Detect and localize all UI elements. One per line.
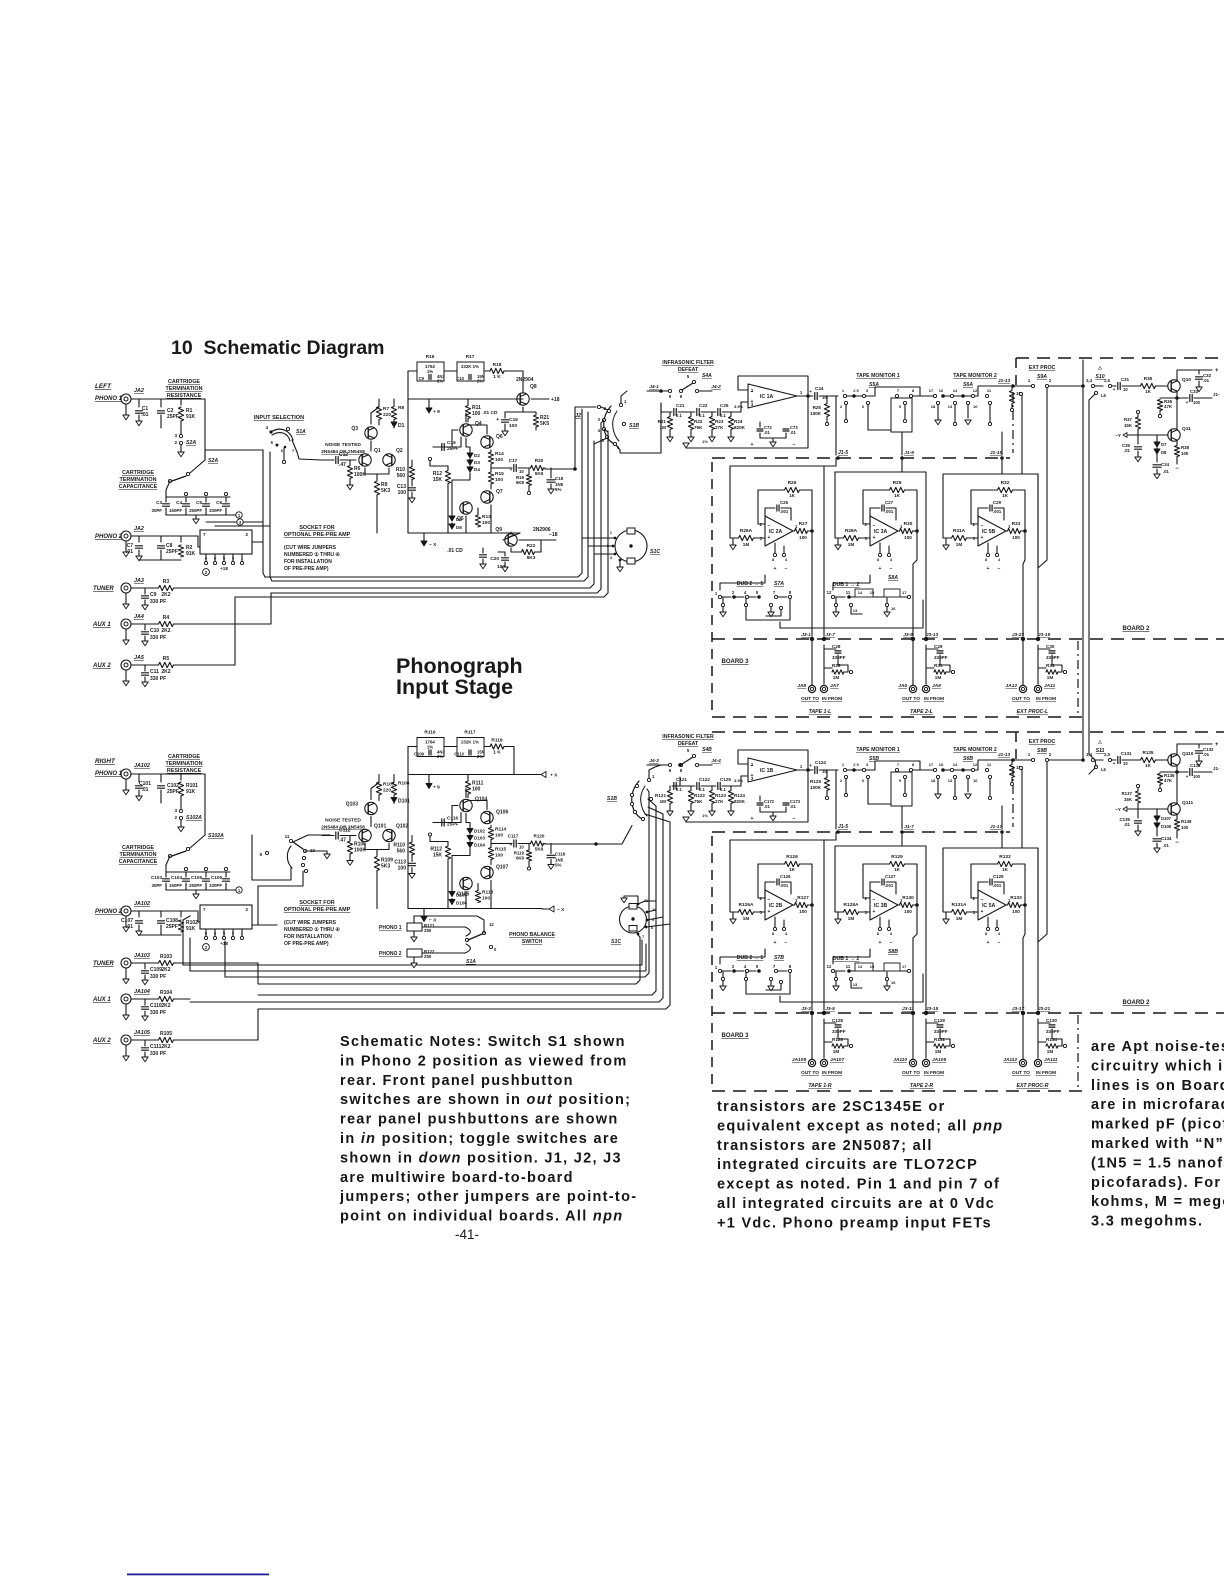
- svg-text:2: 2: [1049, 752, 1052, 757]
- svg-text:R17: R17: [466, 354, 475, 360]
- trimmer R122 250: [407, 949, 422, 957]
- svg-text:AUX 2: AUX 2: [92, 1038, 111, 1044]
- svg-text:R113: R113: [482, 890, 494, 896]
- svg-text:1: 1: [800, 390, 803, 395]
- svg-text:−: −: [998, 940, 1001, 946]
- svg-text:C29: C29: [993, 500, 1002, 505]
- svg-text:BOARD 3: BOARD 3: [721, 1033, 749, 1039]
- svg-text:10: 10: [973, 778, 978, 783]
- wire board2 long vertical B (L6 link): [1089, 400, 1096, 766]
- svg-text:330PF: 330PF: [832, 655, 846, 660]
- capacitor C22 0.1: [697, 409, 699, 416]
- capacitor C2 25PF: [158, 411, 165, 413]
- svg-text:C9: C9: [150, 592, 157, 598]
- diode D106: [451, 899, 453, 905]
- svg-text:D103: D103: [474, 836, 485, 841]
- svg-text:−: −: [981, 897, 984, 903]
- socket for optional pre-pre amp (rectangle): [200, 905, 252, 929]
- svg-text:are multiwire board-to-board: are multiwire board-to-board: [340, 1170, 574, 1186]
- svg-text:R5: R5: [163, 656, 170, 662]
- svg-text:IN FROM: IN FROM: [822, 696, 842, 702]
- jack JA12 OUT TO (EXT PROC-L): [1022, 639, 1024, 685]
- svg-text:△: △: [1097, 365, 1102, 370]
- svg-text:Q9: Q9: [495, 527, 502, 533]
- resistor R36 47K: [1176, 392, 1178, 398]
- svg-text:S1B: S1B: [629, 423, 639, 429]
- jack JA9 IN FROM (TAPE 2-L): [922, 685, 929, 692]
- svg-text:IN FROM: IN FROM: [1036, 1070, 1056, 1076]
- resistor R26A 1M (input): [733, 537, 738, 539]
- resistor R104 2K2: [145, 998, 158, 1000]
- svg-text:6K8: 6K8: [516, 480, 525, 485]
- wire tape1 monitor to J1-9: [901, 432, 903, 455]
- wire IC 3B supply pins: [879, 917, 881, 927]
- svg-text:5K5: 5K5: [540, 421, 549, 427]
- svg-text:9: 9: [899, 404, 902, 409]
- capacitor C29 330PF / resistor R31 1M (input filter): [925, 645, 927, 684]
- resistor R38 100: [1176, 441, 1178, 445]
- svg-text:330PF: 330PF: [209, 508, 222, 513]
- svg-text:4: 4: [785, 931, 788, 936]
- svg-text:D8: D8: [1161, 450, 1167, 455]
- power arrow -Y: [1128, 808, 1138, 810]
- svg-text:S1C: S1C: [611, 939, 621, 945]
- switch S1A phono balance wiper: [422, 926, 465, 928]
- svg-text:3: 3: [174, 433, 177, 438]
- resistor R118 1K: [490, 744, 504, 749]
- capacitor C6 330PF: [225, 497, 227, 502]
- capacitor C31 10: [1118, 383, 1120, 390]
- svg-text:5: 5: [687, 374, 690, 379]
- svg-text:.01: .01: [1203, 752, 1210, 757]
- svg-text:5: 5: [756, 964, 759, 969]
- svg-text:R23: R23: [715, 419, 724, 424]
- svg-text:Q1: Q1: [374, 448, 381, 454]
- svg-text:+: +: [774, 940, 777, 946]
- svg-text:+: +: [1113, 762, 1116, 767]
- resistor R3 2K2: [145, 587, 158, 589]
- capacitor C118 1N5 5%: [550, 844, 552, 854]
- svg-text:4: 4: [744, 590, 747, 595]
- svg-text:C124: C124: [815, 760, 826, 765]
- svg-text:1M: 1M: [833, 675, 840, 680]
- svg-text:100: 100: [472, 411, 481, 417]
- svg-text:J1-17: J1-17: [990, 824, 1003, 830]
- svg-text:Q8: Q8: [530, 384, 537, 390]
- svg-text:J1-5: J1-5: [838, 824, 848, 830]
- jack JA105 (AUX 2): [121, 1035, 131, 1045]
- resistor R108 220: [391, 782, 396, 795]
- svg-text:R38: R38: [1181, 445, 1190, 450]
- svg-text:Q10: Q10: [1182, 377, 1191, 383]
- transistor Q101 input FET: [359, 829, 371, 841]
- svg-text:+1 Vdc. Phono preamp input FET: +1 Vdc. Phono preamp input FETs: [717, 1215, 992, 1231]
- switch S8A drops: [834, 603, 837, 606]
- svg-text:R4: R4: [163, 615, 170, 621]
- wire infrasonic input node (L): [661, 403, 672, 412]
- svg-text:2: 2: [245, 532, 248, 537]
- svg-text:DUB 2 → 1: DUB 2 → 1: [737, 581, 764, 587]
- svg-text:8: 8: [912, 762, 915, 767]
- resistor R103 2K2: [145, 962, 158, 964]
- svg-text:11: 11: [987, 388, 992, 393]
- transistor Q6: [481, 436, 493, 448]
- board 2 top dashed boundary (L): [1016, 357, 1224, 359]
- svg-text:integrated circuits are TLO72C: integrated circuits are TLO72CP: [717, 1157, 978, 1173]
- svg-text:2: 2: [732, 590, 735, 595]
- svg-text:27K: 27K: [715, 425, 724, 430]
- jack JA8 OUT TO (TAPE 1-L): [811, 639, 813, 685]
- wire aux2 riser: [190, 597, 235, 665]
- svg-text:D2: D2: [474, 453, 480, 458]
- svg-text:△: △: [1097, 739, 1102, 744]
- capacitor C130 330PF / resistor R134 1M (input filter): [1037, 1019, 1039, 1058]
- svg-text:6: 6: [862, 404, 865, 409]
- svg-text:R132: R132: [999, 854, 1011, 860]
- capacitor C102 25PF: [158, 786, 165, 788]
- svg-text:+: +: [809, 764, 812, 769]
- svg-text:16: 16: [939, 388, 944, 393]
- svg-text:Q4: Q4: [475, 421, 482, 427]
- wire C24 node down to J1-5 (R): [835, 770, 837, 829]
- resistor R9 5K3 (source): [376, 474, 378, 480]
- svg-text:25PF: 25PF: [166, 924, 178, 930]
- wire J2 riser: [575, 407, 596, 470]
- diode D2: [469, 452, 471, 457]
- svg-text:3.3 megohms.: 3.3 megohms.: [1091, 1214, 1203, 1230]
- wire phono1 R1 node to S1A: [205, 449, 263, 451]
- svg-text:100: 100: [1193, 774, 1201, 779]
- svg-text:Q101: Q101: [374, 824, 386, 830]
- svg-text:2K2: 2K2: [161, 592, 170, 598]
- svg-text:LEFT: LEFT: [95, 383, 112, 390]
- svg-text:C10: C10: [456, 376, 464, 381]
- svg-text:2%: 2%: [437, 754, 443, 759]
- svg-text:PHONO 2: PHONO 2: [95, 909, 123, 915]
- resistor R109 5K3 (source): [376, 850, 378, 856]
- svg-text:8: 8: [772, 931, 775, 936]
- svg-text:point on individual boards. Al: point on individual boards. All npn: [340, 1209, 623, 1225]
- svg-text:IN FROM: IN FROM: [924, 696, 944, 702]
- resistor R24 820K: [730, 412, 732, 416]
- wire crescent pin5 tap: [594, 438, 607, 444]
- svg-text:17: 17: [929, 762, 934, 767]
- svg-text:JA108: JA108: [792, 1057, 806, 1063]
- svg-text:C31: C31: [1121, 377, 1130, 382]
- svg-text:1: 1: [1028, 752, 1031, 757]
- svg-text:13: 13: [853, 982, 858, 987]
- svg-text:−18: −18: [549, 532, 558, 538]
- resistor R114 100: [488, 828, 493, 840]
- svg-text:in Phono 2 position as viewed: in Phono 2 position as viewed from: [340, 1053, 628, 1069]
- wire J1-5 to IC2 input (R): [730, 840, 836, 912]
- svg-text:Q104: Q104: [475, 797, 487, 803]
- svg-text:4: 4: [744, 964, 747, 969]
- svg-text:J1-15: J1-15: [990, 450, 1003, 456]
- svg-text:1K: 1K: [789, 867, 796, 872]
- svg-text:3: 3: [866, 762, 869, 767]
- svg-text:C126: C126: [780, 874, 791, 879]
- svg-text:SOCKET FOR: SOCKET FOR: [299, 525, 334, 531]
- resistor R4 2K2: [145, 623, 158, 625]
- svg-text:Schematic Notes: Switch S1 sho: Schematic Notes: Switch S1 shown: [340, 1034, 626, 1050]
- svg-text:S7A: S7A: [774, 581, 784, 587]
- wire dub bus (R): [780, 1001, 923, 1003]
- resistor R29 1K (feedback): [863, 489, 889, 491]
- transistor Q3 cascode: [365, 427, 377, 439]
- svg-text:+ X: + X: [550, 773, 558, 779]
- resistor R30 100 (output): [898, 530, 899, 532]
- svg-text:3: 3: [866, 388, 869, 393]
- capacitor C8 25PF: [158, 546, 165, 548]
- capacitor C116 25PF: [433, 822, 440, 824]
- svg-text:TUNER: TUNER: [93, 961, 114, 967]
- svg-text:.001: .001: [780, 509, 789, 514]
- svg-text:J1-: J1-: [1213, 392, 1220, 397]
- svg-text:Q3: Q3: [351, 426, 358, 432]
- svg-text:10: 10: [1123, 761, 1128, 766]
- wire right balance feed B: [190, 944, 646, 971]
- svg-text:DEFEAT: DEFEAT: [678, 367, 699, 373]
- svg-text:−: −: [768, 897, 771, 903]
- switch S2A contacts 3,2: [180, 796, 182, 809]
- svg-text:R22: R22: [527, 543, 536, 549]
- svg-text:17: 17: [902, 964, 907, 969]
- svg-text:+: +: [768, 909, 771, 915]
- capacitor C110 330PF: [131, 999, 145, 1005]
- svg-text:C12: C12: [339, 452, 348, 458]
- capacitor C28 330PF / resistor R28 1M (input filter): [823, 645, 825, 684]
- svg-text:232K 1%: 232K 1%: [461, 364, 479, 369]
- svg-text:TERMINATION: TERMINATION: [165, 386, 202, 392]
- svg-text:91K: 91K: [186, 551, 196, 557]
- svg-text:1K: 1K: [1002, 493, 1009, 498]
- svg-text:1%: 1%: [427, 369, 433, 374]
- svg-text:C134: C134: [1161, 836, 1172, 841]
- resistor R26 1K (feedback): [758, 489, 784, 491]
- resistor R127 100 (output): [793, 904, 794, 906]
- svg-text:D104: D104: [474, 843, 485, 848]
- svg-text:BOARD 2: BOARD 2: [1122, 626, 1150, 632]
- jack JA111 IN FROM (EXT PROC-R): [1034, 1059, 1041, 1066]
- svg-text:C133: C133: [1190, 763, 1201, 768]
- jumper circled 2: [203, 944, 210, 951]
- svg-text:S6A: S6A: [963, 382, 973, 388]
- jack JA103 (TUNER): [121, 958, 131, 968]
- wire IC 3A supply pins: [879, 543, 881, 553]
- wire Q110 collector to +: [1177, 744, 1212, 755]
- svg-text:8: 8: [789, 964, 792, 969]
- capacitor C105 250PF: [205, 872, 207, 877]
- capacitor C122 0.1: [697, 783, 699, 790]
- svg-text:3: 3: [174, 808, 177, 813]
- svg-text:J4-3: J4-3: [649, 758, 659, 764]
- svg-text:JA12: JA12: [1006, 683, 1018, 689]
- svg-text:S9B: S9B: [1037, 748, 1047, 754]
- resistor R15 100: [488, 472, 493, 484]
- svg-text:11: 11: [987, 762, 992, 767]
- board 2 left vertical dashed (R): [1015, 732, 1017, 760]
- capacitor C128 330PF / resistor R128 1M (input filter): [823, 1019, 825, 1058]
- svg-text:OUT TO: OUT TO: [801, 1070, 819, 1076]
- svg-text:91K: 91K: [186, 926, 196, 932]
- svg-text:1%: 1%: [702, 439, 708, 444]
- wire crescent pin4 tap: [604, 429, 608, 432]
- jack JA102 (phono 1 input): [121, 769, 131, 779]
- capacitor C32 .01: [1198, 370, 1200, 374]
- svg-text:J1-9: J1-9: [904, 450, 914, 456]
- wire phono2 jack to socket: [131, 911, 139, 917]
- capacitor C27 .001 (feedback): [870, 508, 880, 524]
- svg-text:47K: 47K: [1164, 778, 1173, 783]
- resistor R110 560: [411, 836, 413, 842]
- svg-text:820K: 820K: [734, 425, 746, 430]
- svg-text:6: 6: [281, 448, 284, 453]
- resistor R37 15K: [1136, 410, 1139, 413]
- svg-text:PHONO 1: PHONO 1: [379, 925, 402, 931]
- svg-text:18: 18: [931, 778, 936, 783]
- svg-text:5K3: 5K3: [527, 555, 536, 561]
- svg-text:INPUT SELECTION: INPUT SELECTION: [254, 415, 304, 421]
- svg-text:J1-13: J1-13: [998, 752, 1011, 758]
- svg-text:FOR INSTALLATION: FOR INSTALLATION: [284, 559, 332, 565]
- svg-text:Q103: Q103: [346, 802, 358, 808]
- svg-text:C109: C109: [414, 752, 425, 757]
- svg-text:TAPE MONITOR 1: TAPE MONITOR 1: [856, 747, 900, 753]
- switch S9A contacts: [1013, 385, 1031, 387]
- op-amp IC 2B: [765, 890, 793, 920]
- svg-text:R118: R118: [491, 738, 503, 744]
- svg-text:C110: C110: [454, 752, 464, 757]
- svg-text:100: 100: [398, 490, 407, 496]
- svg-text:− X: − X: [429, 542, 437, 548]
- svg-text:15: 15: [870, 590, 875, 595]
- svg-text:R117: R117: [464, 730, 476, 736]
- transistor Q2 input FET: [383, 454, 395, 466]
- svg-text:(CUT WIRE JUMPERS: (CUT WIRE JUMPERS: [284, 545, 337, 551]
- footer blue rule: [127, 1574, 269, 1576]
- svg-text:R120: R120: [534, 834, 545, 839]
- svg-text:100: 100: [1193, 400, 1201, 405]
- svg-text:100: 100: [1181, 451, 1189, 456]
- svg-text:IN FROM: IN FROM: [924, 1070, 944, 1076]
- wire right bundle vertical 1: [225, 789, 649, 977]
- diode D1: [393, 421, 395, 428]
- decoupling capacitor near rail: [480, 555, 487, 557]
- svg-text:R14: R14: [495, 451, 504, 457]
- resistor R20 5K6: [531, 465, 544, 470]
- wire crescent pin1 up: [621, 391, 627, 403]
- svg-text:100: 100: [799, 535, 807, 540]
- board 3 right dash-dot boundary (R): [1077, 1015, 1079, 1091]
- svg-text:R8: R8: [398, 405, 404, 411]
- jack JA6 OUT TO (TAPE 2-L): [912, 639, 914, 685]
- svg-text:1M: 1M: [1047, 675, 1054, 680]
- trimmer R121 250: [407, 923, 422, 931]
- svg-text:10: 10: [519, 845, 524, 850]
- wire J1-5 to IN FROM tape1 riser (L): [824, 458, 836, 636]
- svg-text:JA8: JA8: [797, 683, 806, 689]
- svg-text:D4: D4: [474, 467, 480, 472]
- svg-text:R16: R16: [426, 354, 435, 360]
- svg-text:S1B: S1B: [607, 796, 617, 802]
- svg-text:30PF: 30PF: [152, 508, 163, 513]
- capacitor C29 .001 (feedback): [978, 508, 988, 524]
- jumper circled 2: [203, 569, 210, 576]
- wire capacitor bank bottom rail + ground: [166, 514, 233, 516]
- wire first-stage internal links: [465, 789, 467, 798]
- resistor R106 100K (gate bias): [349, 836, 351, 841]
- transistor Q10 buffer: [1168, 380, 1180, 392]
- svg-text:0.1: 0.1: [699, 413, 705, 418]
- wire IC2 output drop (R): [811, 905, 813, 1010]
- svg-text:R135: R135: [1143, 750, 1154, 755]
- svg-text:15K: 15K: [433, 477, 443, 483]
- switch S9B contacts: [1013, 759, 1031, 761]
- wire bundle vertical 5 (aux2): [235, 431, 608, 597]
- svg-text:1: 1: [610, 530, 613, 535]
- wire IC 5B supply pins: [987, 543, 989, 553]
- svg-text:INFRASONIC FILTER: INFRASONIC FILTER: [662, 360, 714, 366]
- svg-text:CARTRIDGE: CARTRIDGE: [122, 845, 154, 851]
- svg-text:Q11: Q11: [1182, 426, 1191, 432]
- svg-text:1K: 1K: [1002, 867, 1009, 872]
- svg-text:Q102: Q102: [396, 824, 408, 830]
- resistor R19 6K8: [528, 468, 530, 474]
- svg-text:10 Schematic Diagram: 10 Schematic Diagram: [171, 337, 385, 359]
- svg-text:S102A: S102A: [186, 815, 202, 821]
- svg-text:D102: D102: [474, 829, 485, 834]
- svg-text:1M: 1M: [660, 799, 667, 804]
- svg-text:2K2: 2K2: [161, 628, 170, 634]
- wire capacitor bank top rail: [166, 871, 230, 873]
- wire right wafer wiper to C112: [293, 835, 330, 842]
- wire Q11 base link: [1138, 434, 1168, 436]
- svg-text:C129: C129: [934, 1018, 945, 1023]
- resistor R128A 1M (input): [838, 911, 843, 913]
- svg-text:J3-1: J3-1: [801, 632, 811, 638]
- svg-text:−: −: [793, 816, 796, 822]
- svg-text:J4-4: J4-4: [711, 758, 721, 764]
- svg-text:+: +: [774, 566, 777, 572]
- capacitor C108 25PF: [158, 921, 165, 923]
- svg-text:C130: C130: [1046, 1018, 1057, 1023]
- capacitor C21 0.1: [674, 409, 676, 416]
- svg-text:5: 5: [223, 556, 226, 561]
- svg-text:IN FROM: IN FROM: [1036, 696, 1056, 702]
- svg-text:0.1: 0.1: [676, 787, 682, 792]
- svg-text:Input Stage: Input Stage: [396, 675, 513, 699]
- svg-text:1M: 1M: [743, 542, 750, 547]
- wire phono2 socket to riser: [252, 541, 263, 543]
- wire J1-15 to IC5 input (L): [943, 474, 1002, 538]
- svg-text:C26: C26: [780, 500, 789, 505]
- board 2 / board 3 dashed boundary y639 (R): [712, 1012, 1224, 1014]
- svg-text:C111: C111: [150, 1044, 162, 1050]
- svg-text:+: +: [1186, 401, 1189, 406]
- svg-text:100: 100: [904, 909, 912, 914]
- svg-text:1: 1: [624, 399, 627, 404]
- capacitor C35 .01: [1137, 435, 1139, 444]
- svg-text:JA104: JA104: [134, 989, 150, 995]
- svg-text:J3-9: J3-9: [903, 632, 913, 638]
- resistor R28A 1M (input): [838, 537, 843, 539]
- svg-text:−: −: [793, 442, 796, 448]
- svg-text:TERMINATION: TERMINATION: [119, 852, 156, 858]
- svg-text:C131: C131: [1121, 751, 1132, 756]
- socket pins: [205, 929, 207, 937]
- svg-text:220: 220: [383, 412, 391, 418]
